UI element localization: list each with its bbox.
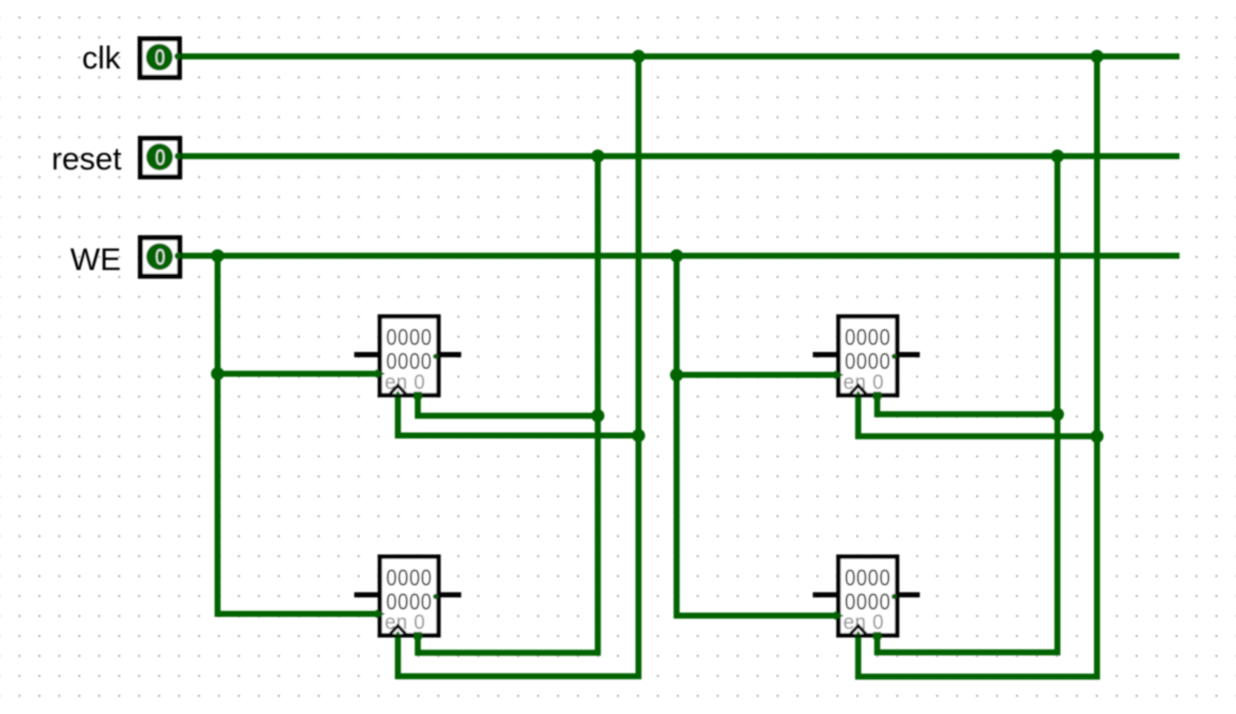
junction WE / right branch xyxy=(670,249,683,262)
wire clk right vertical to R4 clock xyxy=(858,56,1097,676)
svg-text:reset: reset xyxy=(51,140,121,176)
R4 D input stub xyxy=(813,592,840,597)
svg-text:clk: clk xyxy=(82,40,121,76)
register R2 xyxy=(839,317,898,396)
svg-text:0000: 0000 xyxy=(845,564,891,590)
svg-text:0000: 0000 xyxy=(845,324,891,350)
wire R2 clock to clk net xyxy=(858,393,1097,437)
R4 reset input port xyxy=(873,632,881,639)
wire R1 reset to reset net xyxy=(418,392,598,416)
wire WE left vertical to R3 en xyxy=(218,256,382,614)
junction reset / left branch xyxy=(591,150,604,163)
wire WE right vertical to R4 en xyxy=(677,256,841,616)
R1 D input stub xyxy=(354,352,381,357)
junction WE left / R1 en xyxy=(211,367,224,380)
R2 en input arrow xyxy=(835,371,844,380)
svg-text:0: 0 xyxy=(155,245,165,270)
wire reset left vertical to R3 reset xyxy=(418,156,598,653)
junction reset / right branch xyxy=(1051,150,1064,163)
R2 clock input triangle xyxy=(851,386,866,395)
R2 Q output stub xyxy=(892,354,920,359)
svg-text:0000: 0000 xyxy=(386,564,432,590)
svg-text:en 0: en 0 xyxy=(385,610,426,634)
svg-text:en 0: en 0 xyxy=(385,370,426,394)
svg-text:WE: WE xyxy=(70,241,121,277)
junction clk right / R2 clock xyxy=(1090,430,1103,443)
wire R1 clock to clk net xyxy=(398,392,639,436)
wire reset right vertical to R4 reset xyxy=(877,156,1057,652)
wire WE net horizontal xyxy=(174,253,1177,259)
R4 en input arrow xyxy=(835,611,844,620)
wire WE branch to R2 en xyxy=(677,372,841,378)
junction clk / right branch xyxy=(1090,50,1103,63)
junction reset right / R2 reset xyxy=(1051,408,1064,421)
R4 clock input triangle xyxy=(851,626,866,635)
svg-text:0: 0 xyxy=(155,145,165,170)
register R1 xyxy=(380,317,439,396)
svg-text:0000: 0000 xyxy=(386,324,432,350)
svg-text:0: 0 xyxy=(155,45,165,70)
R2 reset input port xyxy=(873,392,881,399)
R1 Q output stub xyxy=(433,354,461,359)
R2 D input stub xyxy=(813,352,840,357)
R1 en input arrow xyxy=(376,369,385,378)
wire R2 reset to reset net xyxy=(877,393,1057,415)
junction reset left / R1 reset xyxy=(591,409,604,422)
junction clk left / R1 clock xyxy=(632,429,645,442)
junction WE / left branch xyxy=(211,249,224,262)
R1 reset input port xyxy=(414,392,422,399)
register R3 xyxy=(380,557,439,636)
R3 reset input port xyxy=(414,632,422,639)
input pin clk xyxy=(140,39,181,78)
register R4 xyxy=(839,557,898,636)
R1 clock input triangle xyxy=(390,386,405,395)
wire WE branch to R1 en xyxy=(218,371,382,377)
input pin reset xyxy=(140,138,181,177)
R3 clock input triangle xyxy=(390,626,405,635)
junction clk / left branch xyxy=(632,50,645,63)
wire clk net horizontal xyxy=(176,53,1177,59)
R3 D input stub xyxy=(354,592,381,597)
R3 en input arrow xyxy=(376,610,385,619)
input pin WE xyxy=(140,238,181,277)
wire clk left vertical to R3 clock xyxy=(398,56,639,676)
wire reset net horizontal xyxy=(176,153,1177,159)
R3 Q output stub xyxy=(433,594,461,599)
R4 Q output stub xyxy=(892,594,920,599)
junction WE right / R2 en xyxy=(670,368,683,381)
